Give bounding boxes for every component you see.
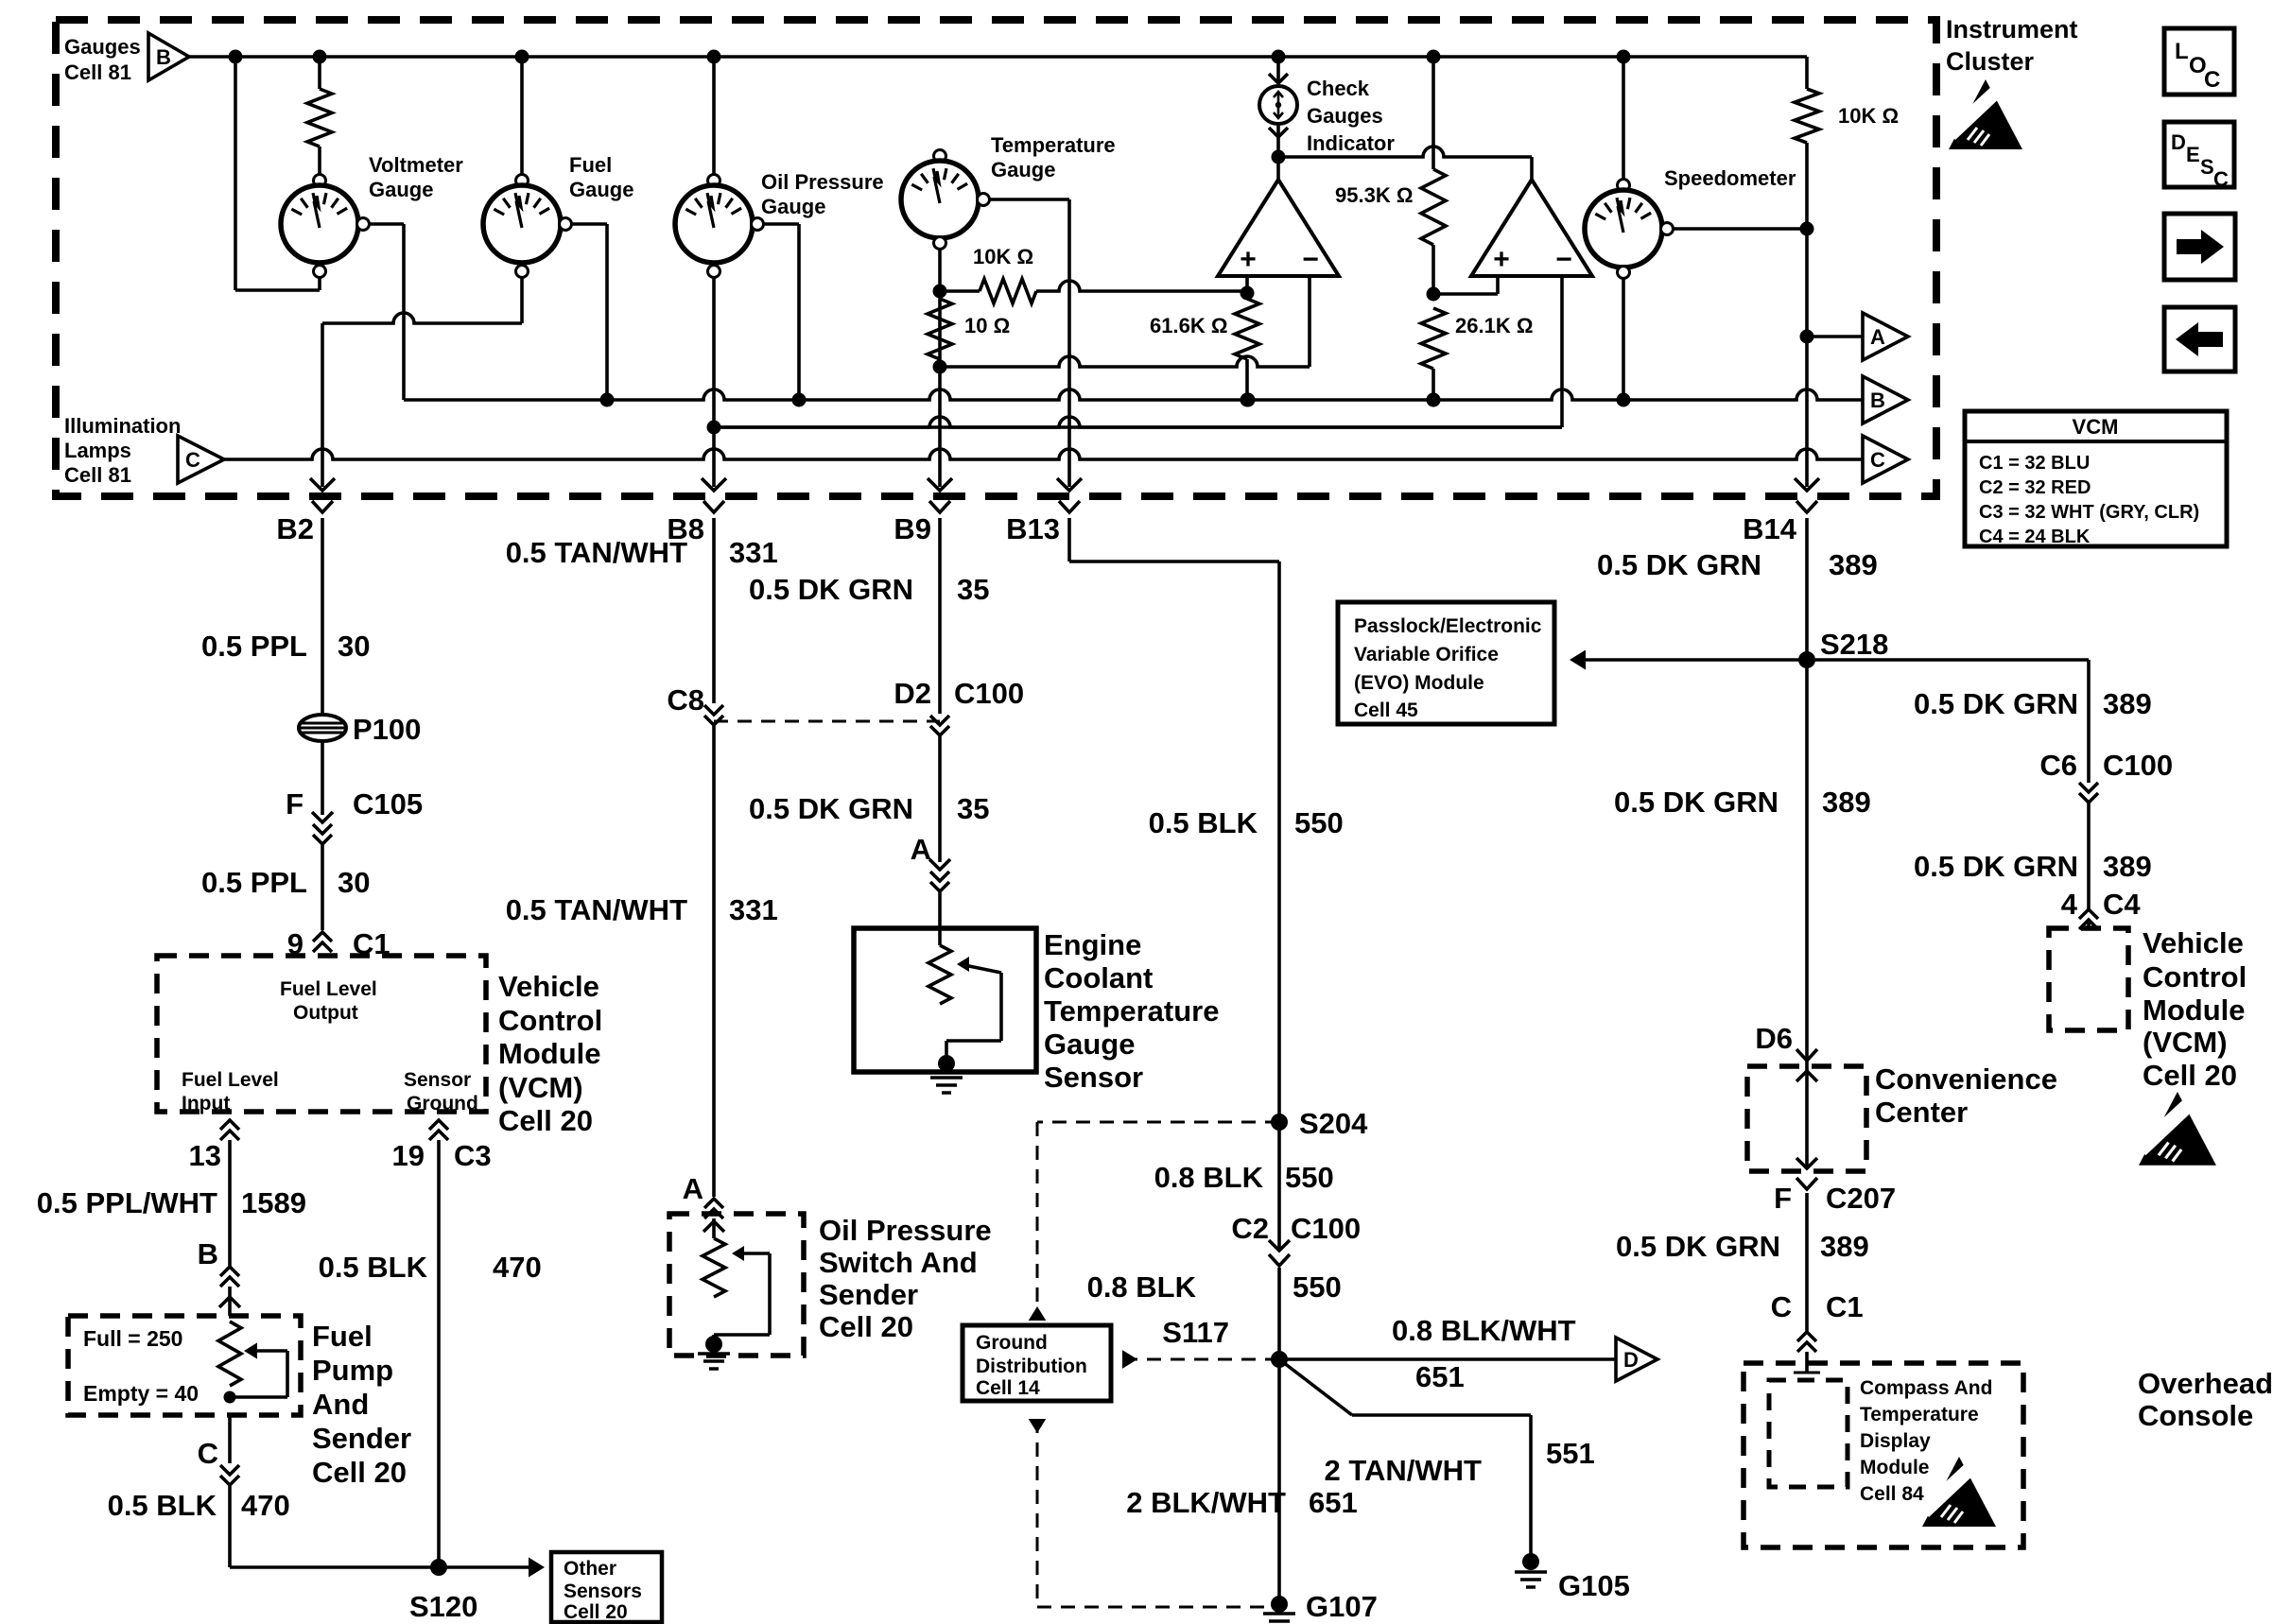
svg-text:0.5 DK GRN: 0.5 DK GRN: [1914, 850, 2078, 883]
svg-text:Cell 20: Cell 20: [498, 1104, 593, 1137]
svg-text:331: 331: [729, 893, 778, 926]
svg-text:0.5 PPL: 0.5 PPL: [201, 866, 307, 899]
svg-text:550: 550: [1294, 806, 1344, 839]
svg-text:B13: B13: [1006, 512, 1060, 545]
svg-text:Control: Control: [498, 1004, 602, 1037]
svg-text:D2: D2: [894, 677, 931, 710]
svg-text:35: 35: [957, 792, 989, 825]
svg-text:Ground: Ground: [407, 1093, 478, 1114]
svg-text:Cluster: Cluster: [1946, 47, 2035, 76]
svg-text:4: 4: [2061, 888, 2078, 921]
svg-text:Switch And: Switch And: [819, 1246, 978, 1279]
svg-text:VCM: VCM: [2073, 415, 2119, 439]
svg-text:C207: C207: [1826, 1182, 1896, 1215]
svg-text:C100: C100: [2103, 749, 2173, 782]
svg-text:Sensor: Sensor: [404, 1069, 471, 1091]
svg-text:Oil Pressure: Oil Pressure: [819, 1214, 992, 1247]
svg-text:Cell 20: Cell 20: [564, 1601, 628, 1623]
svg-text:Cell 84: Cell 84: [1860, 1483, 1924, 1505]
svg-text:S120: S120: [409, 1590, 477, 1623]
svg-text:0.5 DK GRN: 0.5 DK GRN: [749, 573, 913, 606]
svg-text:Sensor: Sensor: [1044, 1061, 1143, 1094]
svg-text:Fuel: Fuel: [312, 1320, 373, 1353]
svg-text:C2: C2: [1231, 1212, 1269, 1245]
svg-text:2 TAN/WHT: 2 TAN/WHT: [1325, 1454, 1483, 1487]
svg-text:Module: Module: [2143, 993, 2246, 1027]
svg-text:S: S: [2200, 155, 2214, 179]
svg-text:551: 551: [1546, 1437, 1595, 1470]
svg-text:Lamps: Lamps: [64, 439, 131, 462]
svg-text:389: 389: [2103, 850, 2152, 883]
svg-text:30: 30: [338, 630, 370, 663]
svg-text:0.5 DK GRN: 0.5 DK GRN: [749, 792, 913, 825]
svg-text:B: B: [156, 45, 171, 69]
svg-text:Temperature: Temperature: [991, 133, 1116, 157]
svg-text:S204: S204: [1299, 1107, 1368, 1140]
svg-text:Illumination: Illumination: [64, 414, 181, 438]
svg-text:C8: C8: [667, 683, 704, 717]
svg-text:And: And: [312, 1388, 369, 1421]
svg-text:Fuel Level: Fuel Level: [280, 978, 377, 1000]
svg-text:C3: C3: [454, 1139, 492, 1172]
svg-text:Sensors: Sensors: [564, 1581, 642, 1602]
svg-text:389: 389: [1822, 786, 1871, 819]
svg-text:Convenience: Convenience: [1875, 1063, 2057, 1096]
svg-text:651: 651: [1309, 1486, 1358, 1519]
svg-text:F: F: [1774, 1182, 1792, 1215]
svg-text:10 Ω: 10 Ω: [964, 314, 1010, 337]
svg-text:389: 389: [1829, 548, 1878, 581]
svg-text:Cell 45: Cell 45: [1354, 700, 1418, 721]
svg-text:550: 550: [1293, 1270, 1342, 1304]
svg-text:13: 13: [189, 1139, 221, 1172]
svg-text:S117: S117: [1162, 1316, 1229, 1349]
svg-text:Empty = 40: Empty = 40: [83, 1381, 199, 1406]
svg-text:26.1K Ω: 26.1K Ω: [1455, 314, 1533, 337]
svg-text:Engine: Engine: [1044, 928, 1141, 961]
svg-text:Vehicle: Vehicle: [498, 970, 599, 1003]
svg-text:Input: Input: [182, 1093, 230, 1114]
svg-text:Sender: Sender: [312, 1422, 411, 1455]
svg-text:Distribution: Distribution: [976, 1356, 1087, 1377]
svg-text:+: +: [1240, 244, 1257, 275]
svg-text:Variable Orifice: Variable Orifice: [1354, 644, 1499, 665]
svg-text:D: D: [2171, 130, 2186, 154]
svg-text:C: C: [2204, 67, 2220, 93]
svg-text:B14: B14: [1743, 512, 1797, 545]
svg-text:Gauges: Gauges: [64, 35, 141, 59]
svg-text:C4 = 24 BLK: C4 = 24 BLK: [1979, 527, 2091, 547]
svg-text:Ground: Ground: [976, 1332, 1048, 1354]
svg-text:0.8 BLK: 0.8 BLK: [1087, 1270, 1197, 1304]
svg-text:Module: Module: [1860, 1457, 1930, 1478]
svg-text:Instrument: Instrument: [1946, 15, 2078, 43]
svg-text:−: −: [1302, 244, 1319, 275]
svg-text:10K Ω: 10K Ω: [1838, 104, 1899, 128]
svg-text:Cell 14: Cell 14: [976, 1377, 1040, 1399]
svg-text:Cell 20: Cell 20: [819, 1310, 913, 1343]
svg-text:(EVO) Module: (EVO) Module: [1354, 672, 1484, 694]
svg-text:Console: Console: [2138, 1399, 2253, 1432]
svg-text:Voltmeter: Voltmeter: [369, 153, 463, 177]
svg-text:C3 = 32 WHT (GRY, CLR): C3 = 32 WHT (GRY, CLR): [1979, 502, 2199, 523]
svg-text:B: B: [1870, 389, 1885, 412]
svg-text:0.5 DK GRN: 0.5 DK GRN: [1914, 687, 2078, 720]
svg-text:Fuel Level: Fuel Level: [182, 1069, 279, 1091]
svg-text:D6: D6: [1755, 1022, 1793, 1055]
svg-text:Gauge: Gauge: [991, 158, 1055, 181]
svg-text:C: C: [1771, 1290, 1792, 1323]
svg-text:0.5 DK GRN: 0.5 DK GRN: [1616, 1230, 1780, 1263]
svg-text:−: −: [1555, 244, 1572, 275]
svg-text:0.5 TAN/WHT: 0.5 TAN/WHT: [506, 893, 687, 926]
svg-text:B9: B9: [894, 512, 931, 545]
svg-text:Cell 81: Cell 81: [64, 60, 131, 84]
svg-text:Cell 81: Cell 81: [64, 463, 131, 487]
svg-text:0.8 BLK: 0.8 BLK: [1154, 1161, 1264, 1194]
svg-text:389: 389: [1820, 1230, 1869, 1263]
svg-text:Fuel: Fuel: [569, 153, 612, 177]
svg-text:Full = 250: Full = 250: [83, 1326, 182, 1351]
svg-text:470: 470: [241, 1489, 290, 1522]
svg-text:Gauge: Gauge: [369, 178, 433, 201]
svg-text:D: D: [1623, 1348, 1639, 1372]
svg-text:+: +: [1493, 244, 1510, 275]
svg-text:61.6K Ω: 61.6K Ω: [1150, 314, 1227, 337]
svg-text:19: 19: [392, 1139, 425, 1172]
svg-text:C: C: [1870, 448, 1885, 472]
svg-text:2 BLK/WHT: 2 BLK/WHT: [1126, 1486, 1286, 1519]
svg-text:331: 331: [729, 536, 778, 569]
svg-text:(VCM): (VCM): [498, 1071, 583, 1104]
svg-text:0.5 BLK: 0.5 BLK: [319, 1251, 428, 1284]
svg-text:G107: G107: [1306, 1590, 1378, 1623]
svg-text:Gauges: Gauges: [1307, 104, 1383, 128]
svg-text:C: C: [2213, 167, 2229, 191]
svg-text:C6: C6: [2039, 749, 2077, 782]
svg-text:C: C: [185, 448, 200, 472]
svg-text:Control: Control: [2143, 960, 2247, 993]
svg-text:0.5 DK GRN: 0.5 DK GRN: [1597, 548, 1761, 581]
svg-text:(VCM): (VCM): [2143, 1026, 2228, 1059]
svg-text:651: 651: [1415, 1360, 1465, 1393]
svg-text:B: B: [198, 1237, 218, 1270]
svg-text:Vehicle: Vehicle: [2143, 926, 2244, 959]
svg-text:C100: C100: [1291, 1212, 1361, 1245]
svg-text:Display: Display: [1860, 1430, 1931, 1452]
svg-text:A: A: [911, 833, 931, 866]
svg-text:Compass And: Compass And: [1860, 1377, 1992, 1399]
svg-text:Indicator: Indicator: [1307, 131, 1395, 155]
svg-text:Gauge: Gauge: [761, 195, 825, 218]
svg-text:Coolant: Coolant: [1044, 961, 1153, 994]
svg-text:389: 389: [2103, 687, 2152, 720]
svg-text:S218: S218: [1820, 628, 1888, 661]
svg-text:C1 = 32 BLU: C1 = 32 BLU: [1979, 453, 2090, 474]
svg-text:Other: Other: [564, 1558, 616, 1580]
svg-text:L: L: [2175, 39, 2189, 64]
svg-text:Check: Check: [1307, 77, 1370, 100]
svg-text:Cell 20: Cell 20: [2143, 1059, 2237, 1092]
svg-text:P100: P100: [353, 713, 421, 746]
svg-text:1589: 1589: [241, 1186, 306, 1219]
svg-text:G105: G105: [1558, 1569, 1630, 1602]
svg-text:C2 = 32 RED: C2 = 32 RED: [1979, 477, 2091, 498]
svg-text:C: C: [198, 1437, 218, 1470]
svg-text:Speedometer: Speedometer: [1664, 166, 1796, 190]
svg-text:Passlock/Electronic: Passlock/Electronic: [1354, 615, 1542, 637]
svg-text:Center: Center: [1875, 1096, 1968, 1129]
svg-text:35: 35: [957, 573, 989, 606]
svg-text:Cell 20: Cell 20: [312, 1456, 407, 1489]
svg-text:A: A: [1870, 325, 1885, 349]
svg-text:B2: B2: [276, 512, 314, 545]
svg-text:0.5 TAN/WHT: 0.5 TAN/WHT: [506, 536, 687, 569]
svg-text:C1: C1: [1826, 1290, 1864, 1323]
svg-text:0.5 PPL/WHT: 0.5 PPL/WHT: [37, 1186, 217, 1219]
svg-text:Overhead: Overhead: [2138, 1367, 2273, 1400]
svg-text:F: F: [286, 787, 304, 821]
svg-text:Oil Pressure: Oil Pressure: [761, 170, 884, 194]
svg-text:Gauge: Gauge: [1044, 1028, 1135, 1061]
svg-text:0.5 BLK: 0.5 BLK: [108, 1489, 217, 1522]
svg-text:Sender: Sender: [819, 1278, 918, 1311]
svg-text:0.8 BLK/WHT: 0.8 BLK/WHT: [1392, 1314, 1576, 1347]
svg-text:Temperature: Temperature: [1860, 1404, 1979, 1425]
svg-text:0.5 DK GRN: 0.5 DK GRN: [1614, 786, 1778, 819]
svg-text:Pump: Pump: [312, 1354, 393, 1387]
svg-text:95.3K Ω: 95.3K Ω: [1335, 183, 1413, 207]
svg-text:470: 470: [493, 1251, 542, 1284]
svg-text:30: 30: [338, 866, 370, 899]
svg-text:Module: Module: [498, 1037, 601, 1070]
svg-text:C105: C105: [353, 787, 423, 821]
svg-text:E: E: [2186, 143, 2200, 166]
svg-text:Output: Output: [293, 1002, 358, 1024]
svg-text:Temperature: Temperature: [1044, 994, 1220, 1028]
svg-text:C4: C4: [2103, 888, 2141, 921]
svg-text:550: 550: [1285, 1161, 1334, 1194]
svg-text:A: A: [683, 1172, 703, 1205]
svg-text:0.5 BLK: 0.5 BLK: [1149, 806, 1258, 839]
svg-text:Gauge: Gauge: [569, 178, 633, 201]
svg-text:C100: C100: [954, 677, 1024, 710]
svg-text:0.5 PPL: 0.5 PPL: [201, 630, 307, 663]
svg-text:10K Ω: 10K Ω: [973, 245, 1033, 268]
